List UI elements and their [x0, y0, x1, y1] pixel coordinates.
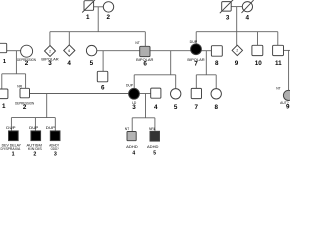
wire: drop to IV-3 — [54, 118, 56, 131]
person III-2 male square DEPRESSION — [20, 88, 30, 98]
svg-text:3: 3 — [48, 60, 52, 67]
svg-text:1: 1 — [86, 14, 90, 21]
svg-text:4: 4 — [132, 151, 135, 157]
wire: sibship line IV-4/IV-5 — [132, 117, 155, 119]
person I-1 deceased male square — [84, 1, 94, 11]
person I-3 deceased male square — [222, 2, 232, 12]
svg-text:8: 8 — [215, 60, 219, 67]
wire: left sibship line generation II — [50, 31, 145, 33]
svg-text:DUP: DUP — [29, 126, 39, 130]
svg-text:1: 1 — [3, 59, 6, 65]
wire: mating line II-1 to II-2 — [7, 50, 21, 52]
svg-text:NT: NT — [276, 86, 280, 90]
wire: descent from couple II-7/II-8 — [205, 51, 207, 75]
wire: drop to IV-1 — [10, 118, 12, 131]
wire: mating line III-3 to III-4 — [139, 93, 150, 95]
wire: mating line II-11 to off-page spouse — [284, 49, 290, 51]
person II-5 female circle — [86, 45, 96, 55]
wire: sibship line IV-1/IV-2/IV-3 — [11, 117, 55, 119]
wire: drop to III-5 — [175, 75, 177, 89]
svg-text:2: 2 — [236, 49, 238, 53]
svg-text:ADHD: ADHD — [147, 145, 159, 149]
wire: right sibship line generation II — [196, 31, 278, 33]
person IV-2 male square affected black DUP — [31, 131, 41, 141]
person II-8 male square — [211, 46, 222, 57]
person III-8 female circle — [211, 89, 221, 99]
svg-text:6: 6 — [68, 49, 70, 53]
svg-text:7: 7 — [194, 104, 198, 111]
person III-9 female circle grey AUT? (cut at right edge) — [283, 90, 293, 100]
svg-text:9: 9 — [235, 60, 239, 67]
wire: drop to II-3 — [49, 32, 51, 46]
wire: descent from couple II-6/II-7 — [170, 51, 172, 75]
svg-text:2: 2 — [23, 104, 27, 111]
svg-text:5: 5 — [90, 60, 94, 67]
wire: sibship line III-1/III-2 — [2, 73, 26, 75]
wire: mating line I-3 to I-4 — [231, 6, 242, 8]
wire: descent from couple I-3/I-4 through sibship to II-9 — [236, 7, 238, 46]
svg-text:3: 3 — [226, 15, 230, 22]
person II-1 male square (cut at left edge) — [0, 43, 7, 52]
person II-3 diamond n=2 BIPOLAR — [45, 46, 56, 57]
person III-7 male square — [191, 88, 201, 98]
svg-text:5: 5 — [174, 104, 178, 111]
svg-text:DUP: DUP — [6, 126, 16, 130]
person I-4 deceased female circle — [242, 2, 252, 12]
svg-text:DUP: DUP — [190, 40, 198, 44]
wire: drop to III-2 — [25, 74, 27, 89]
wire: drop to II-10 — [257, 32, 259, 46]
wire: descent from couple II-1/II-2 — [15, 51, 17, 74]
person II-2 female circle DEPRESSION — [21, 45, 33, 57]
svg-text:DUP: DUP — [46, 126, 56, 130]
person III-6 male square — [97, 71, 108, 82]
wire: drop to III-1 — [1, 74, 3, 89]
wire: drop to II-7 — [195, 32, 197, 44]
svg-text:4: 4 — [246, 15, 250, 22]
wire: drop to III-7 — [195, 75, 197, 89]
svg-text:NRL: NRL — [149, 127, 156, 131]
svg-text:1: 1 — [2, 103, 6, 110]
person II-4 diamond n=6 — [64, 45, 75, 56]
wire: sibship line III-3/III-5 — [134, 74, 176, 76]
wire: drop to II-6 — [144, 32, 146, 47]
person II-6 male square BIPOLAR affected grey — [140, 46, 150, 56]
svg-text:3: 3 — [132, 104, 136, 111]
wire: descent from couple III-3/III-4 — [145, 94, 147, 118]
svg-text:7: 7 — [194, 60, 198, 67]
wire: drop to IV-4 — [131, 118, 133, 132]
person III-3 female circle affected black LD DUP — [129, 88, 140, 99]
svg-text:4: 4 — [154, 104, 158, 111]
svg-text:ADHD: ADHD — [126, 145, 138, 149]
wire: mating line II-5 to II-6 — [97, 50, 140, 52]
svg-text:5: 5 — [153, 151, 156, 157]
svg-text:8: 8 — [214, 104, 218, 111]
svg-text:3: 3 — [54, 151, 57, 157]
svg-text:11: 11 — [275, 60, 282, 67]
person III-1 male square — [0, 89, 8, 99]
person IV-4 male square affected grey ADHD — [127, 132, 136, 141]
person III-4 male square — [151, 88, 161, 98]
wire: drop to II-4 — [68, 32, 70, 45]
wire: drop to II-11 — [277, 32, 279, 46]
person II-10 male square — [252, 45, 263, 55]
person II-7 female circle BIPOLAR affected black — [191, 44, 202, 55]
wire: mating line I-1 to I-2 — [94, 6, 104, 8]
person II-9 diamond n=2 — [232, 45, 242, 55]
svg-text:NT: NT — [125, 127, 129, 131]
wire: sibship line III-7/III-8 — [196, 74, 216, 76]
svg-text:4: 4 — [67, 60, 71, 67]
wire: descent to III-9 — [288, 50, 290, 90]
wire: drop to III-8 — [215, 75, 217, 89]
wire: mating line III-2 to III-3 — [30, 93, 129, 95]
svg-text:2: 2 — [49, 49, 51, 53]
person I-2 female circle — [103, 2, 113, 12]
wire: descent from couple II-5/II-6 to III-6 — [102, 51, 104, 72]
svg-text:NT: NT — [135, 41, 139, 45]
svg-text:NR: NR — [17, 85, 22, 89]
person III-5 female circle — [171, 89, 181, 99]
wire: mating line II-6 to II-7 — [150, 50, 191, 52]
svg-text:9: 9 — [286, 104, 290, 111]
svg-text:2: 2 — [25, 60, 29, 67]
wire: descent from couple III-2/III-3 — [46, 94, 48, 118]
person IV-5 male square affected dark ADHD — [150, 131, 160, 141]
wire: descent from couple I-1/I-2 — [97, 7, 99, 32]
wire: drop to IV-2 — [34, 118, 36, 131]
person IV-1 male square affected black DUP — [9, 131, 19, 141]
person IV-3 male square affected black DUP — [50, 131, 60, 141]
svg-text:6: 6 — [101, 85, 105, 92]
svg-text:6: 6 — [143, 60, 147, 67]
person II-11 male square — [273, 45, 284, 55]
svg-text:2: 2 — [106, 14, 110, 21]
svg-text:10: 10 — [255, 60, 263, 67]
wire: mating line II-7 to II-8 — [201, 50, 211, 52]
svg-text:2: 2 — [33, 151, 36, 157]
svg-text:1: 1 — [12, 151, 15, 157]
wire: drop to III-3 — [133, 75, 135, 89]
wire: drop to IV-5 — [154, 118, 156, 132]
svg-text:DUP: DUP — [126, 83, 134, 87]
